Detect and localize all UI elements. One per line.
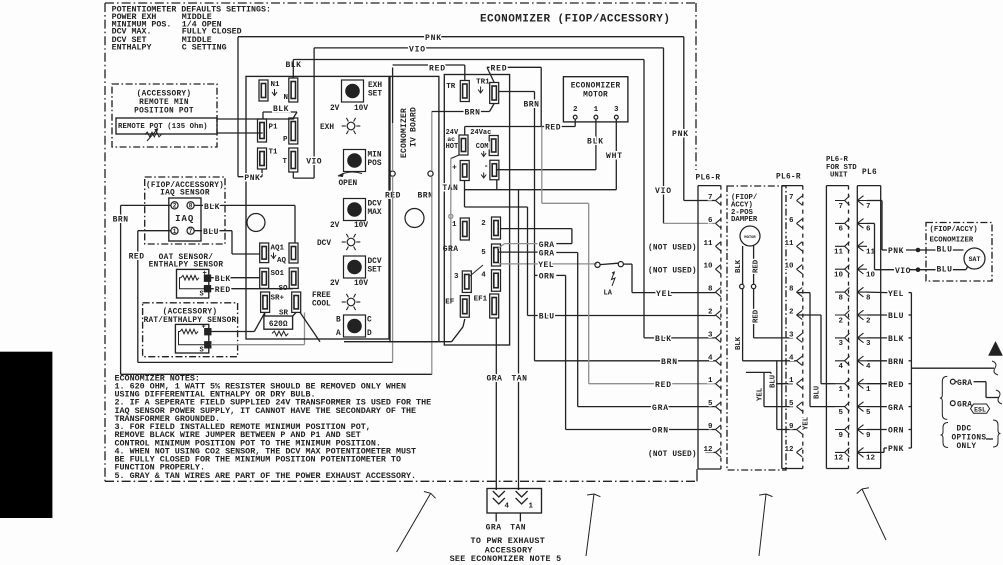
svg-text:BRN: BRN bbox=[888, 358, 904, 367]
svg-text:4: 4 bbox=[789, 354, 794, 362]
svg-text:COOL: COOL bbox=[312, 301, 331, 309]
svg-text:ENTHALPY: ENTHALPY bbox=[112, 43, 152, 52]
svg-text:MIN: MIN bbox=[368, 152, 382, 160]
svg-text:DAMPER: DAMPER bbox=[731, 216, 758, 224]
svg-text:9: 9 bbox=[866, 432, 871, 440]
svg-text:9: 9 bbox=[708, 423, 713, 431]
svg-text:ECONOMIZER: ECONOMIZER bbox=[400, 108, 409, 158]
svg-text:2: 2 bbox=[838, 317, 843, 325]
svg-text:4: 4 bbox=[708, 354, 713, 362]
svg-text:BLU: BLU bbox=[539, 313, 555, 322]
svg-text:BLK: BLK bbox=[273, 105, 289, 114]
svg-text:6: 6 bbox=[789, 217, 794, 225]
svg-text:VIO: VIO bbox=[895, 267, 911, 276]
svg-text:(ACCESSORY): (ACCESSORY) bbox=[163, 309, 218, 317]
svg-text:1: 1 bbox=[789, 377, 794, 385]
svg-text:5: 5 bbox=[866, 409, 871, 417]
svg-text:2: 2 bbox=[481, 220, 486, 228]
svg-text:10: 10 bbox=[866, 272, 876, 280]
svg-text:EF1: EF1 bbox=[474, 296, 488, 304]
svg-text:DCV: DCV bbox=[368, 201, 382, 209]
svg-text:10: 10 bbox=[784, 263, 794, 271]
svg-text:ac: ac bbox=[447, 136, 455, 143]
svg-text:RED: RED bbox=[545, 124, 561, 133]
svg-text:2: 2 bbox=[708, 309, 713, 317]
svg-text:(NOT USED): (NOT USED) bbox=[648, 451, 697, 459]
svg-text:AQ1: AQ1 bbox=[271, 245, 285, 253]
svg-text:6: 6 bbox=[708, 217, 713, 225]
svg-text:LA: LA bbox=[604, 290, 613, 298]
svg-text:SO: SO bbox=[279, 285, 289, 293]
svg-text:2: 2 bbox=[173, 203, 177, 210]
svg-text:AQ: AQ bbox=[277, 257, 287, 265]
svg-text:REMOTE POT (135 Ohm): REMOTE POT (135 Ohm) bbox=[118, 123, 208, 131]
svg-text:BRN: BRN bbox=[661, 358, 678, 367]
svg-text:2: 2 bbox=[573, 106, 578, 114]
svg-text:PNK: PNK bbox=[672, 130, 689, 139]
svg-text:1: 1 bbox=[452, 221, 457, 229]
svg-text:TAN: TAN bbox=[512, 375, 528, 384]
svg-text:8: 8 bbox=[789, 286, 794, 294]
svg-text:6: 6 bbox=[838, 226, 843, 234]
svg-text:BLU: BLU bbox=[814, 386, 822, 399]
svg-text:RED: RED bbox=[888, 381, 904, 390]
svg-text:BLU: BLU bbox=[888, 312, 904, 321]
svg-text:T: T bbox=[283, 158, 288, 166]
svg-text:C SETTING: C SETTING bbox=[182, 43, 227, 52]
svg-text:BLK: BLK bbox=[735, 259, 743, 273]
svg-text:ORN: ORN bbox=[652, 427, 669, 436]
svg-text:GRA: GRA bbox=[443, 245, 459, 254]
svg-text:8: 8 bbox=[708, 286, 713, 294]
svg-text:REMOTE MIN: REMOTE MIN bbox=[139, 99, 189, 107]
svg-text:5: 5 bbox=[838, 409, 843, 417]
svg-text:PNK: PNK bbox=[425, 34, 442, 43]
svg-text:BLK: BLK bbox=[655, 335, 672, 344]
svg-text:T1: T1 bbox=[269, 149, 279, 157]
svg-text:5: 5 bbox=[481, 249, 486, 257]
svg-text:11: 11 bbox=[784, 240, 794, 248]
svg-text:8: 8 bbox=[866, 294, 871, 302]
svg-text:MOTOR: MOTOR bbox=[744, 236, 756, 240]
svg-text:BRN: BRN bbox=[465, 109, 481, 118]
svg-text:1: 1 bbox=[866, 386, 871, 394]
svg-text:1: 1 bbox=[838, 386, 843, 394]
svg-text:ECONOMIZER: ECONOMIZER bbox=[930, 237, 974, 245]
svg-text:6: 6 bbox=[866, 226, 871, 234]
svg-text:1: 1 bbox=[708, 377, 713, 385]
svg-text:GRA: GRA bbox=[539, 250, 555, 259]
svg-text:3: 3 bbox=[708, 331, 713, 339]
svg-text:YEL: YEL bbox=[757, 388, 765, 401]
svg-text:5: 5 bbox=[708, 400, 713, 408]
svg-text:2V: 2V bbox=[330, 105, 340, 113]
svg-text:HOT: HOT bbox=[446, 143, 459, 151]
svg-text:12: 12 bbox=[866, 455, 876, 463]
svg-text:RED: RED bbox=[491, 64, 508, 73]
svg-text:TR1: TR1 bbox=[476, 79, 490, 87]
svg-text:3: 3 bbox=[838, 340, 843, 348]
svg-text:10V: 10V bbox=[354, 280, 368, 288]
svg-text:24Vac: 24Vac bbox=[470, 129, 491, 137]
svg-text:EXH: EXH bbox=[320, 124, 334, 132]
svg-text:BLK: BLK bbox=[204, 203, 220, 212]
svg-text:5: 5 bbox=[789, 400, 794, 408]
svg-text:POSITION POT: POSITION POT bbox=[134, 108, 194, 116]
svg-text:SO1: SO1 bbox=[271, 270, 285, 278]
svg-text:2V: 2V bbox=[330, 222, 340, 230]
svg-text:BRN: BRN bbox=[113, 216, 129, 225]
svg-text:GRA: GRA bbox=[957, 379, 972, 388]
svg-text:12: 12 bbox=[784, 446, 794, 454]
svg-text:N: N bbox=[284, 94, 289, 102]
svg-text:ONLY: ONLY bbox=[957, 443, 977, 451]
svg-text:N1: N1 bbox=[271, 81, 281, 89]
svg-text:BLU: BLU bbox=[203, 228, 219, 237]
svg-text:SR+: SR+ bbox=[271, 295, 285, 303]
svg-text:MAX: MAX bbox=[368, 209, 382, 217]
svg-text:7: 7 bbox=[789, 194, 794, 202]
svg-text:P1: P1 bbox=[269, 124, 279, 132]
svg-text:12: 12 bbox=[703, 446, 713, 454]
svg-text:OPEN: OPEN bbox=[339, 180, 358, 188]
svg-text:BLU: BLU bbox=[770, 375, 778, 388]
svg-text:RED: RED bbox=[129, 253, 145, 262]
svg-text:GRA: GRA bbox=[539, 241, 555, 250]
svg-text:B: B bbox=[336, 317, 341, 325]
svg-text:PL6-R: PL6-R bbox=[696, 175, 721, 183]
svg-text:RED: RED bbox=[215, 286, 231, 295]
svg-text:1: 1 bbox=[594, 106, 599, 114]
svg-text:RED: RED bbox=[429, 64, 446, 73]
svg-text:PNK: PNK bbox=[244, 174, 260, 183]
svg-text:BRN: BRN bbox=[418, 192, 434, 201]
svg-text:VIO: VIO bbox=[306, 158, 322, 167]
svg-text:4: 4 bbox=[866, 363, 871, 371]
svg-text:MOTOR: MOTOR bbox=[583, 91, 608, 99]
svg-text:VIO: VIO bbox=[409, 45, 426, 54]
svg-text:D: D bbox=[367, 330, 372, 338]
svg-text:COM: COM bbox=[476, 143, 489, 151]
svg-text:DDC: DDC bbox=[957, 426, 972, 434]
svg-text:ECONOMIZER: ECONOMIZER bbox=[571, 83, 621, 91]
svg-text:(NOT USED): (NOT USED) bbox=[648, 245, 697, 253]
svg-text:BRN: BRN bbox=[524, 101, 540, 110]
svg-text:(NOT USED): (NOT USED) bbox=[648, 267, 697, 275]
svg-text:TR: TR bbox=[446, 83, 456, 91]
svg-text:10: 10 bbox=[703, 263, 713, 271]
svg-text:EF: EF bbox=[445, 299, 455, 307]
svg-text:620Ω: 620Ω bbox=[269, 321, 288, 329]
svg-text:SET: SET bbox=[368, 267, 382, 275]
svg-text:IAQ SENSOR: IAQ SENSOR bbox=[160, 190, 210, 198]
svg-text:FOR STD: FOR STD bbox=[826, 164, 857, 172]
svg-text:C: C bbox=[367, 317, 372, 325]
svg-text:BLU: BLU bbox=[937, 246, 953, 255]
svg-text:3: 3 bbox=[866, 340, 871, 348]
svg-text:ORN: ORN bbox=[888, 427, 904, 436]
svg-text:11: 11 bbox=[834, 249, 844, 257]
svg-text:DCV: DCV bbox=[317, 240, 331, 248]
svg-text:RED: RED bbox=[753, 309, 761, 323]
svg-text:YEL: YEL bbox=[656, 290, 673, 299]
svg-text:ECONOMIZER (FIOP/ACCESSORY): ECONOMIZER (FIOP/ACCESSORY) bbox=[480, 14, 670, 26]
svg-text:12: 12 bbox=[834, 455, 844, 463]
svg-text:YEL: YEL bbox=[538, 261, 554, 270]
svg-text:10: 10 bbox=[834, 272, 844, 280]
svg-text:8: 8 bbox=[838, 294, 843, 302]
svg-text:OPTIONS: OPTIONS bbox=[952, 434, 987, 442]
svg-text:RED: RED bbox=[753, 259, 761, 273]
svg-text:-: - bbox=[484, 162, 489, 171]
svg-text:BLU: BLU bbox=[937, 265, 953, 274]
svg-text:10V: 10V bbox=[354, 105, 368, 113]
svg-text:GRA: GRA bbox=[486, 524, 502, 533]
svg-text:GRA: GRA bbox=[652, 404, 669, 413]
svg-text:EXH: EXH bbox=[368, 82, 382, 90]
svg-text:7: 7 bbox=[838, 203, 843, 211]
svg-text:2V: 2V bbox=[330, 280, 340, 288]
svg-text:11: 11 bbox=[703, 240, 713, 248]
svg-text:BLK: BLK bbox=[587, 138, 604, 147]
svg-text:8: 8 bbox=[189, 203, 193, 210]
svg-text:SEE ECONOMIZER NOTE 5: SEE ECONOMIZER NOTE 5 bbox=[450, 554, 562, 564]
svg-text:2: 2 bbox=[789, 309, 794, 317]
svg-text:SAT: SAT bbox=[969, 256, 981, 263]
svg-text:P: P bbox=[283, 136, 288, 144]
svg-text:DCV: DCV bbox=[368, 258, 382, 266]
svg-text:9: 9 bbox=[789, 423, 794, 431]
svg-text:UNIT: UNIT bbox=[830, 172, 848, 180]
svg-text:2: 2 bbox=[866, 317, 871, 325]
svg-text:YEL: YEL bbox=[888, 290, 904, 299]
svg-text:BLK: BLK bbox=[888, 335, 904, 344]
svg-text:GRA: GRA bbox=[957, 400, 972, 409]
svg-text:WHT: WHT bbox=[606, 152, 623, 161]
svg-text:4: 4 bbox=[505, 503, 510, 511]
svg-text:VIO: VIO bbox=[655, 187, 672, 196]
svg-text:1: 1 bbox=[173, 228, 177, 235]
svg-text:YEL: YEL bbox=[803, 417, 811, 430]
svg-text:3: 3 bbox=[789, 331, 794, 339]
svg-text:5. GRAY & TAN WIRES ARE PART O: 5. GRAY & TAN WIRES ARE PART OF THE POWE… bbox=[115, 471, 417, 481]
svg-text:GRA: GRA bbox=[888, 404, 904, 413]
svg-text:7: 7 bbox=[189, 228, 193, 235]
svg-text:4: 4 bbox=[838, 363, 843, 371]
svg-text:7: 7 bbox=[866, 203, 871, 211]
svg-text:PNK: PNK bbox=[888, 247, 904, 256]
svg-text:1: 1 bbox=[529, 503, 534, 511]
svg-text:ORN: ORN bbox=[539, 273, 555, 282]
svg-text:ENTHALPY SENSOR: ENTHALPY SENSOR bbox=[149, 262, 224, 270]
svg-text:(FIOP/ACCY): (FIOP/ACCY) bbox=[930, 226, 978, 234]
svg-text:10V: 10V bbox=[354, 222, 368, 230]
svg-text:PL6-R: PL6-R bbox=[826, 156, 849, 164]
svg-text:S: S bbox=[200, 347, 204, 355]
svg-text:PL6-R: PL6-R bbox=[776, 174, 801, 182]
svg-text:+: + bbox=[452, 163, 457, 172]
svg-text:9: 9 bbox=[838, 432, 843, 440]
svg-text:3: 3 bbox=[454, 273, 459, 281]
svg-text:ESL: ESL bbox=[974, 406, 986, 413]
svg-text:POS: POS bbox=[368, 160, 382, 168]
svg-text:IAQ: IAQ bbox=[175, 214, 194, 224]
svg-text:GRA: GRA bbox=[487, 375, 503, 384]
svg-text:SET: SET bbox=[368, 91, 382, 99]
svg-text:PL6: PL6 bbox=[862, 169, 877, 177]
svg-text:4: 4 bbox=[481, 272, 486, 280]
svg-text:7: 7 bbox=[708, 194, 713, 202]
svg-text:IV BOARD: IV BOARD bbox=[410, 107, 419, 147]
svg-text:(ACCESSORY): (ACCESSORY) bbox=[137, 91, 192, 99]
svg-text:PNK: PNK bbox=[888, 445, 904, 454]
svg-text:RED: RED bbox=[655, 381, 672, 390]
svg-text:TAN: TAN bbox=[510, 524, 526, 533]
svg-text:3: 3 bbox=[614, 106, 619, 114]
svg-text:S: S bbox=[200, 291, 204, 299]
svg-text:A: A bbox=[336, 330, 341, 338]
svg-text:BLK: BLK bbox=[215, 275, 231, 284]
svg-text:BLK: BLK bbox=[735, 336, 743, 350]
svg-text:FREE: FREE bbox=[312, 292, 331, 300]
